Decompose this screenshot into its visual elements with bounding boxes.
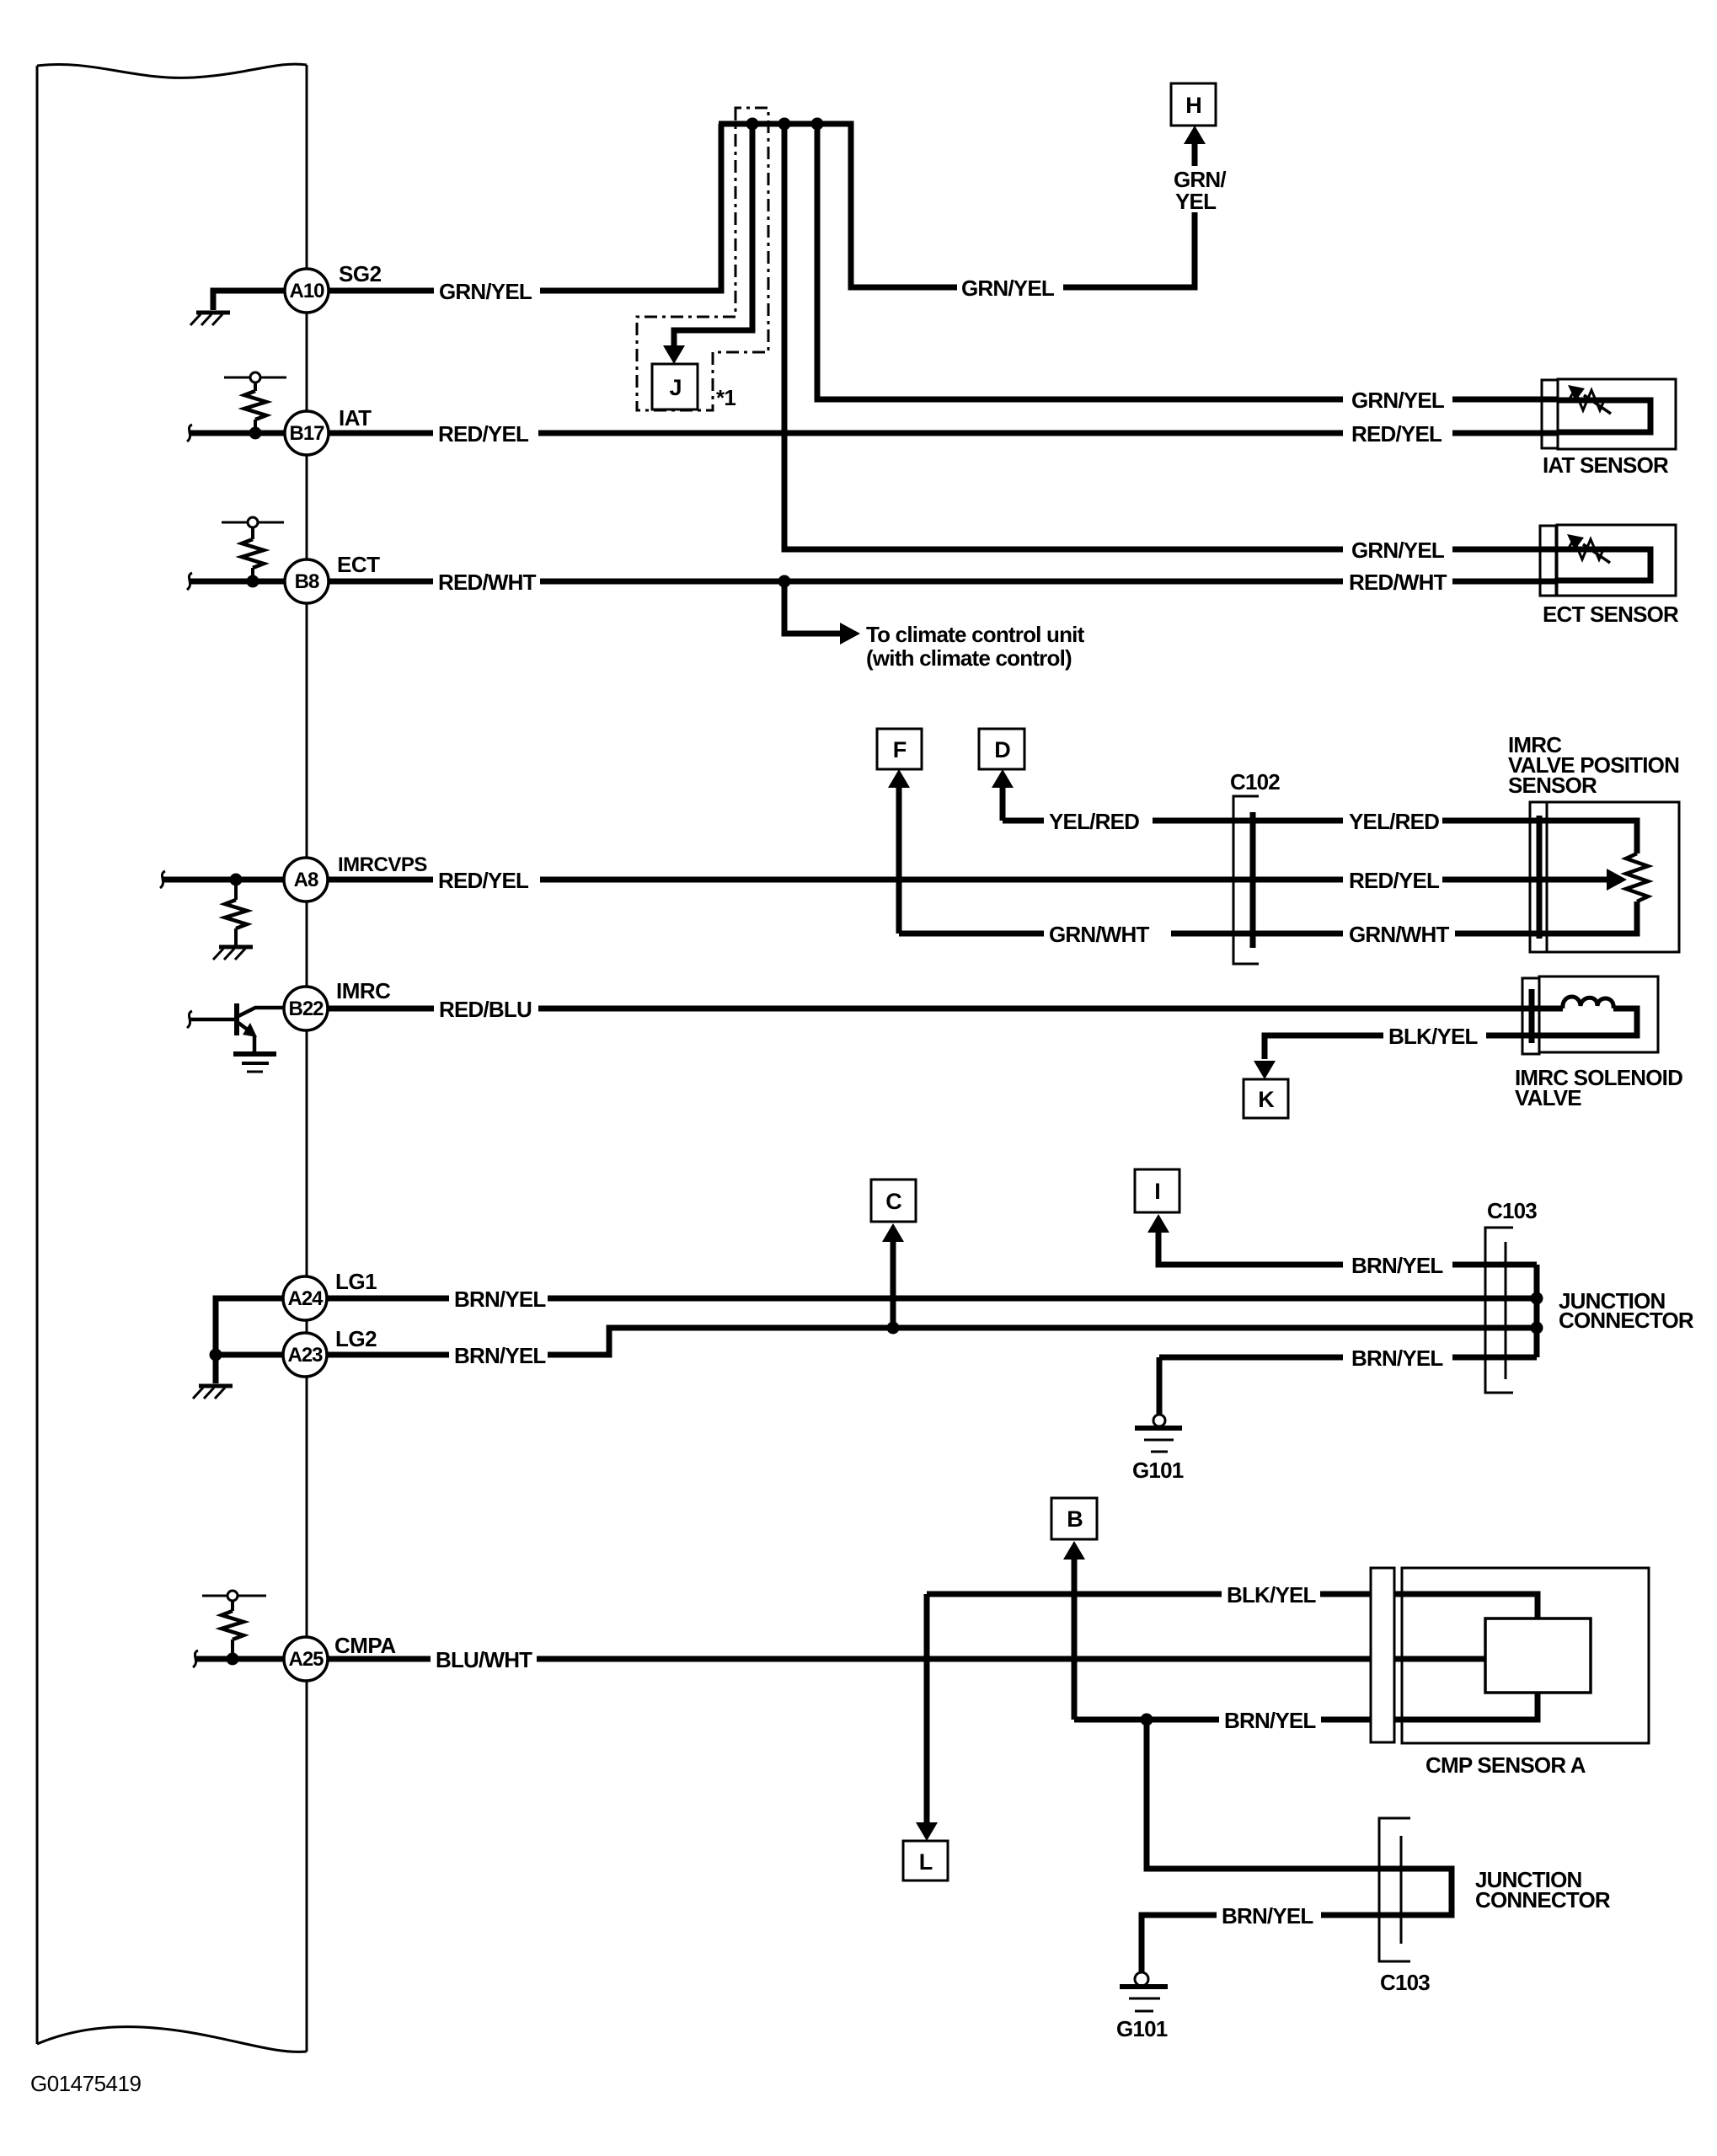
svg-text:BRN/YEL: BRN/YEL	[1222, 1903, 1313, 1929]
svg-text:RED/WHT: RED/WHT	[438, 570, 537, 595]
svg-text:C: C	[885, 1189, 902, 1214]
svg-text:B8: B8	[295, 570, 319, 593]
connector A25 left lead	[196, 1656, 284, 1662]
svg-text:ECT: ECT	[337, 552, 380, 577]
pin B22	[284, 987, 328, 1030]
svg-text:YEL/RED: YEL/RED	[1049, 809, 1139, 834]
wire: branch up to B	[1072, 1558, 1078, 1720]
junction connector C103 (upper)	[1485, 1228, 1513, 1393]
connector B8 left lead	[190, 579, 285, 585]
wire: YEL/RED row and arrow to D	[1000, 786, 1006, 821]
box F	[877, 729, 922, 769]
wiper arrow inside IMRC VPS	[1547, 877, 1607, 883]
wire: top bus and drop to H row	[719, 124, 957, 287]
svg-text:GRN/YEL: GRN/YEL	[961, 276, 1055, 301]
svg-text:BRN/YEL: BRN/YEL	[1351, 1253, 1443, 1278]
wire: BRN/YEL row of CMP sensor	[1074, 1717, 1219, 1723]
pin A24	[283, 1276, 327, 1320]
pin A23	[283, 1333, 327, 1377]
wire: LG1 BRN/YEL from A24 to junction connector C103	[327, 1296, 449, 1302]
svg-text:G01475419: G01475419	[30, 2071, 141, 2096]
node: bus junction 1	[746, 118, 759, 131]
svg-text:BRN/YEL: BRN/YEL	[454, 1343, 546, 1368]
IMRC VPS connector bracket	[1530, 802, 1547, 952]
arrow to climate control	[840, 623, 860, 645]
wire: GRN/YEL to H arrow	[1063, 212, 1195, 287]
arrow into B	[1063, 1541, 1085, 1559]
junction connector C103 (lower)	[1379, 1818, 1410, 1961]
node: A25 resistor junction	[227, 1653, 239, 1666]
svg-text:RED/BLU: RED/BLU	[439, 997, 532, 1022]
ground at LG leads	[199, 1384, 233, 1388]
svg-text:CONNECTOR: CONNECTOR	[1559, 1308, 1694, 1333]
svg-text:IMRC: IMRC	[336, 978, 391, 1003]
svg-text:H: H	[1185, 93, 1202, 118]
wire: A24/A23 left leads to ground	[216, 1298, 283, 1383]
svg-text:CMPA: CMPA	[334, 1633, 396, 1658]
svg-text:RED/YEL: RED/YEL	[1351, 421, 1442, 447]
svg-text:SG2: SG2	[339, 261, 382, 286]
arrow into H	[1184, 126, 1206, 144]
wire break ticks on stub ends	[160, 425, 198, 1667]
svg-text:G101: G101	[1116, 2016, 1168, 2041]
arrow into K	[1254, 1061, 1276, 1079]
svg-text:C103: C103	[1380, 1970, 1430, 1995]
svg-text:IAT SENSOR: IAT SENSOR	[1543, 452, 1669, 478]
potentiometer inside IMRC VPS	[1547, 821, 1637, 853]
IMRC VPS sensor box	[1547, 802, 1679, 952]
box L	[903, 1841, 948, 1880]
ground G101 (lower)	[1135, 1972, 1148, 1986]
svg-text:RED/WHT: RED/WHT	[1349, 570, 1447, 595]
node: C103 bus junction 1	[1531, 1292, 1543, 1305]
wire: LG2 BRN/YEL from A23 with step up	[327, 1352, 449, 1358]
svg-text:BLK/YEL: BLK/YEL	[1388, 1024, 1479, 1049]
svg-text:BRN/YEL: BRN/YEL	[1224, 1708, 1316, 1733]
svg-text:VALVE: VALVE	[1515, 1085, 1581, 1110]
ECT sensor box	[1557, 525, 1676, 596]
node: A8 resistor junction	[230, 874, 243, 886]
node: climate-control tap on RED/WHT	[778, 575, 791, 588]
pin B8	[285, 559, 329, 603]
svg-text:LG1: LG1	[335, 1269, 377, 1294]
IMRC solenoid valve box	[1539, 976, 1658, 1052]
IAT thermistor symbol	[1569, 390, 1605, 410]
pull-up resistor at B17	[224, 372, 286, 383]
node: bus junction 2	[778, 118, 791, 131]
svg-text:LG2: LG2	[335, 1326, 377, 1351]
svg-text:C103: C103	[1487, 1198, 1537, 1223]
letters in reference boxes	[669, 93, 1275, 1875]
wire: BRN/YEL row to I	[1158, 1231, 1343, 1265]
svg-text:(with climate control): (with climate control)	[866, 645, 1072, 671]
ECT sensor connector bracket	[1540, 526, 1556, 596]
svg-text:GRN/YEL: GRN/YEL	[1351, 538, 1445, 563]
svg-text:YEL: YEL	[1175, 189, 1217, 214]
svg-text:I: I	[1154, 1179, 1161, 1204]
wire: IMRCVPS RED/YEL from A8 to C102	[328, 877, 433, 883]
node: C arrow tap on LG2 wire	[887, 1322, 900, 1335]
wire: BRN/YEL down to junction connector C103 (lower)	[1147, 1720, 1452, 1915]
wire: BRN/YEL row to G101	[1159, 1355, 1343, 1361]
wire: IMRC RED/BLU from B22 to solenoid valve	[328, 1006, 434, 1012]
wire: CMPA BLU/WHT from A25 to CMP sensor	[328, 1656, 431, 1662]
svg-text:ECT SENSOR: ECT SENSOR	[1543, 602, 1679, 627]
svg-text:A8: A8	[294, 869, 318, 891]
arrow into L	[916, 1822, 938, 1841]
node: C103 bus junction 2	[1531, 1322, 1543, 1335]
pull-up resistor at B8	[222, 517, 284, 527]
connector C102	[1233, 796, 1259, 964]
CMP sensor A box	[1402, 1568, 1649, 1743]
driver transistor at B22	[234, 1003, 239, 1035]
svg-text:L: L	[919, 1849, 933, 1875]
box K	[1244, 1079, 1288, 1118]
connector A8 left lead	[163, 877, 284, 883]
svg-text:SENSOR: SENSOR	[1508, 773, 1597, 798]
svg-text:YEL/RED: YEL/RED	[1349, 809, 1439, 834]
box D	[979, 729, 1024, 769]
box B	[1051, 1498, 1097, 1539]
ECU connector band (torn strip)	[37, 64, 307, 2052]
wire: ECT RED/WHT from B8 to sensor	[329, 579, 433, 585]
IAT sensor box	[1558, 379, 1676, 449]
pin B17	[285, 411, 329, 455]
ECU pin circles	[283, 269, 329, 1681]
wire: GRN/WHT row and arrow to F	[896, 786, 902, 934]
CMP sensor connector bracket	[1371, 1568, 1394, 1742]
node: B17 resistor junction	[249, 427, 262, 440]
wire: branch to climate control unit	[784, 581, 842, 634]
svg-text:GRN/YEL: GRN/YEL	[439, 279, 532, 304]
svg-text:CONNECTOR: CONNECTOR	[1475, 1887, 1611, 1913]
connector B17 left lead	[190, 431, 285, 436]
svg-text:RED/YEL: RED/YEL	[438, 421, 529, 447]
node: BRN/YEL junction to C103	[1141, 1714, 1153, 1726]
pin A10	[285, 269, 329, 313]
box H	[1171, 83, 1216, 126]
svg-text:GRN/YEL: GRN/YEL	[1351, 388, 1445, 413]
box C	[871, 1180, 916, 1222]
svg-text:RED/YEL: RED/YEL	[438, 868, 529, 893]
wire: A10 left lead to ground	[213, 291, 286, 310]
wire: BRN/YEL row to G101 (lower)	[1321, 1913, 1401, 1918]
svg-text:BLK/YEL: BLK/YEL	[1227, 1582, 1317, 1608]
arrow into I	[1147, 1214, 1169, 1233]
wire: branch to J connector	[674, 124, 752, 349]
svg-text:K: K	[1258, 1087, 1275, 1112]
pull-up resistor at A25	[202, 1591, 266, 1601]
wire: bus drop to ECT sensor GRN/YEL	[784, 124, 1343, 549]
svg-text:GRN/WHT: GRN/WHT	[1049, 922, 1150, 947]
connector B22 left lead	[190, 1018, 236, 1022]
pull-down resistor at A8	[234, 880, 238, 900]
wire: branch up to C	[891, 1238, 896, 1328]
pin designator labels	[287, 280, 324, 1671]
svg-text:IMRCVPS: IMRCVPS	[338, 853, 427, 876]
svg-text:A10: A10	[289, 280, 324, 302]
svg-text:GRN/WHT: GRN/WHT	[1349, 922, 1450, 947]
ECT sensor element loop	[1557, 549, 1650, 580]
svg-text:*1: *1	[716, 385, 735, 410]
ground at A10 lead	[196, 311, 230, 315]
IAT sensor connector bracket	[1542, 380, 1558, 448]
wire: SG2 GRN/YEL from A10 to top bus	[329, 288, 434, 294]
svg-text:RED/YEL: RED/YEL	[1349, 868, 1440, 893]
svg-text:BRN/YEL: BRN/YEL	[454, 1287, 546, 1312]
pin A8	[284, 858, 328, 901]
svg-text:C102: C102	[1230, 769, 1280, 794]
svg-text:B17: B17	[289, 422, 324, 445]
wire: BLK/YEL row of CMP sensor	[927, 1592, 1222, 1597]
svg-text:D: D	[994, 737, 1011, 762]
svg-text:J: J	[669, 375, 682, 400]
arrow into C	[882, 1223, 904, 1242]
svg-text:A25: A25	[288, 1648, 324, 1671]
node: bus junction 3	[811, 118, 824, 131]
ECT thermistor symbol	[1568, 539, 1604, 559]
ground at transistor emitter	[233, 1051, 276, 1057]
wire: branch down to L	[924, 1594, 930, 1822]
svg-text:B22: B22	[288, 998, 324, 1020]
ground G101 (upper)	[1153, 1415, 1165, 1426]
svg-text:BLU/WHT: BLU/WHT	[436, 1647, 532, 1672]
box J	[652, 364, 698, 409]
wire: IAT RED/YEL from B17 to sensor	[329, 431, 433, 436]
node: LG ground junction	[210, 1349, 222, 1362]
arrow into J	[663, 345, 685, 364]
ground at A8 resistor	[219, 945, 253, 950]
solenoid coil inside IMRC solenoid valve	[1522, 1006, 1563, 1012]
svg-text:A23: A23	[287, 1344, 323, 1367]
reference letter boxes	[652, 83, 1288, 1880]
IMRC solenoid valve connector bracket	[1522, 978, 1539, 1054]
svg-text:A24: A24	[287, 1287, 324, 1310]
CMP sensor element	[1485, 1618, 1591, 1693]
node: B8 resistor junction	[247, 575, 259, 588]
svg-text:B: B	[1067, 1506, 1083, 1532]
svg-text:F: F	[893, 737, 907, 762]
dash-dot harness boundary around J branch	[637, 108, 768, 410]
pin A25	[284, 1637, 328, 1681]
wire: BLK/YEL from solenoid to K	[1486, 1033, 1522, 1039]
IAT sensor element loop	[1558, 400, 1650, 432]
svg-text:IAT: IAT	[339, 405, 372, 431]
svg-text:BRN/YEL: BRN/YEL	[1351, 1345, 1443, 1371]
svg-text:CMP SENSOR A: CMP SENSOR A	[1425, 1752, 1586, 1778]
wire: bus drop to IAT sensor GRN/YEL	[817, 124, 1343, 399]
svg-text:To climate control unit: To climate control unit	[866, 622, 1085, 647]
svg-text:G101: G101	[1132, 1458, 1184, 1483]
box I	[1135, 1169, 1179, 1212]
